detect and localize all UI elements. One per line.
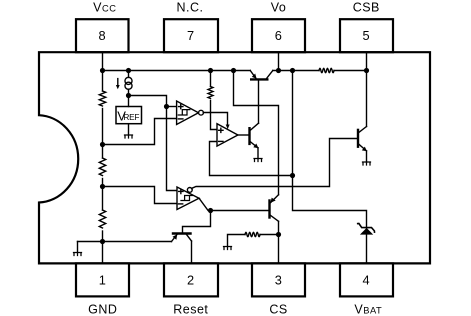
resistor R3 — [99, 210, 105, 228]
pin 7 box — [164, 19, 218, 52]
voltage reference U4 VREF stub — [128, 96, 130, 107]
wire U2 output net — [199, 198, 268, 210]
pin 5 box — [340, 19, 393, 52]
node rail-jog — [231, 68, 236, 73]
node tap2 dot — [100, 184, 105, 189]
node U1 plus branch dot — [164, 104, 169, 109]
IC body outline with index notch — [39, 52, 430, 263]
resistor R5 — [319, 68, 334, 72]
pin 2 box — [164, 263, 218, 296]
diode D1 schottky to VBAT — [360, 228, 373, 235]
wire U1 output to strobe arrow — [203, 113, 227, 125]
comparator U1 — [177, 101, 199, 125]
svg-text:8: 8 — [98, 28, 106, 43]
transistor Q5 npn CSB driver — [357, 130, 359, 147]
svg-text:GND: GND — [88, 303, 117, 316]
comparator U2 — [177, 187, 199, 210]
wire VREF to ground — [128, 124, 130, 135]
svg-text:4: 4 — [362, 272, 370, 287]
ground G2 — [125, 135, 133, 138]
pin 3 box — [252, 263, 305, 296]
wire rail to resistor R4 — [210, 71, 212, 87]
wire ground rail bottom left — [78, 241, 172, 243]
transistor Q1 pnp reset driver — [173, 232, 191, 234]
wire rail right of Q2 — [273, 70, 319, 72]
wire R6 left to ground — [228, 235, 246, 247]
svg-text:1: 1 — [99, 272, 107, 287]
node tap1 dot — [100, 142, 105, 147]
wire stub to ground G1 — [77, 242, 79, 253]
svg-text:2: 2 — [187, 272, 195, 287]
wire divider column upper — [102, 71, 104, 92]
svg-text:7: 7 — [187, 28, 195, 43]
wire pin8 stub — [102, 52, 104, 70]
svg-text:N.C.: N.C. — [177, 1, 204, 15]
wire pin5 column — [366, 52, 368, 126]
wire U5 inverting input net — [210, 142, 293, 176]
pin 1 box — [76, 263, 129, 296]
wire R4 to U5 plus input — [211, 101, 217, 130]
node rail-I1 — [126, 68, 131, 73]
wire Q2 base column — [258, 81, 260, 124]
node rail-pin8 — [100, 68, 105, 73]
voltage reference U4 box — [116, 107, 142, 124]
resistor R2 — [99, 158, 105, 176]
wire Vcc jog to Q4 emitter — [234, 71, 279, 195]
resistor R6 — [245, 232, 260, 236]
svg-text:VCC: VCC — [93, 1, 116, 15]
node rail-pin6 — [276, 68, 281, 73]
svg-text:VBAT: VBAT — [354, 303, 382, 316]
pin 6 box — [252, 19, 305, 52]
wire Q3 emitter to ground — [257, 148, 259, 159]
current source I1 — [125, 77, 132, 84]
ground G1 — [74, 253, 82, 256]
ground G5 — [363, 162, 371, 165]
wire tap1 to U1 inverting input — [103, 119, 177, 145]
strobe arrowhead into U5 — [226, 125, 230, 130]
wire U1 plus branch — [167, 106, 177, 108]
wire Q1 collector to pin2 — [191, 241, 193, 263]
transistor Q2 pnp Vo switch — [251, 78, 267, 80]
node rail-pin5 — [364, 68, 369, 73]
wire D1 to pin4 — [366, 234, 368, 263]
svg-text:Vo: Vo — [271, 1, 287, 15]
resistor R4 — [208, 87, 213, 99]
pin 4 box — [340, 263, 393, 296]
transistor Q4 pnp CS driver — [268, 201, 270, 218]
node rail-R4 — [208, 68, 213, 73]
wire R5 to pin5 line — [334, 70, 367, 72]
wire Q4 collector to pin3 — [278, 221, 280, 263]
svg-text:5: 5 — [362, 28, 370, 43]
wire Vcc rail left — [103, 70, 251, 72]
wire U2 bubble to Q5 base — [192, 139, 357, 189]
node feedback-U5 dot — [290, 173, 295, 178]
node U2 output dot — [208, 208, 213, 213]
wire Q5 emitter to ground — [366, 151, 368, 162]
current source I1 stubs — [128, 71, 130, 96]
op-amp U5 — [217, 124, 238, 146]
svg-text:Reset: Reset — [173, 303, 208, 316]
svg-text:6: 6 — [275, 28, 283, 43]
node pin3 dot — [276, 232, 281, 237]
wire divider mid1 — [102, 109, 104, 159]
transistor Q3 npn — [248, 128, 250, 144]
wire tap2 to U2 inverting input — [103, 187, 177, 204]
wire branch to Q1 base — [183, 211, 211, 233]
wire pin6 stub — [278, 52, 280, 70]
svg-text:CS: CS — [269, 303, 287, 316]
ground G4 — [224, 247, 232, 250]
node rail-feedback — [290, 68, 295, 73]
svg-text:CSB: CSB — [353, 1, 380, 15]
wire divider to pin1 — [102, 231, 104, 263]
wire U5 output — [238, 134, 249, 136]
ground G3 — [254, 159, 262, 162]
node divider bottom dot — [100, 239, 105, 244]
resistor R1 — [99, 91, 105, 106]
svg-text:REF: REF — [123, 112, 139, 122]
wire feedback column from Vo rail to diode — [293, 71, 367, 229]
wire node A to comparator plus inputs — [129, 96, 177, 191]
wire R6 right — [260, 234, 279, 236]
svg-text:3: 3 — [275, 272, 283, 287]
pin 8 box — [76, 19, 129, 52]
current source arrow — [117, 79, 119, 86]
node A dot — [126, 93, 131, 98]
U2 inverted strobe bubble — [187, 188, 192, 193]
wire divider mid2 — [102, 179, 104, 211]
